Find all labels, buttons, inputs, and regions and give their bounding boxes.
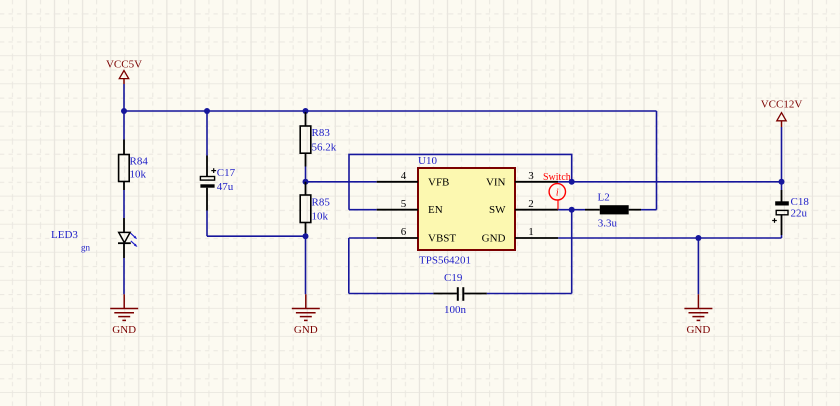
- ground GND middle: [292, 294, 320, 336]
- svg-text:1: 1: [528, 226, 534, 238]
- svg-text:100n: 100n: [444, 304, 467, 316]
- junction SW node: [569, 207, 575, 213]
- wire C18 bottom to GND net: [781, 235, 783, 238]
- wire main VCC5V bus: [124, 110, 657, 112]
- svg-text:VIN: VIN: [486, 176, 506, 188]
- svg-text:3.3u: 3.3u: [598, 218, 618, 230]
- svg-text:L2: L2: [598, 192, 610, 204]
- svg-text:SW: SW: [489, 204, 506, 216]
- svg-text:GND: GND: [294, 324, 318, 336]
- wire C17 to R85 junction: [207, 235, 306, 237]
- svg-text:U10: U10: [418, 155, 437, 167]
- wire junction down to GND: [697, 238, 699, 294]
- svg-text:6: 6: [401, 226, 407, 238]
- resistor R83: [300, 112, 337, 167]
- svg-text:gn: gn: [81, 243, 91, 253]
- wire EN to pin 5: [349, 209, 377, 211]
- wire riser L2 to VCC5V bus: [656, 111, 658, 210]
- inductor L2: [585, 192, 641, 230]
- svg-text:GND: GND: [686, 324, 710, 336]
- wire junction to C18: [781, 182, 783, 190]
- svg-text:R85: R85: [312, 197, 331, 209]
- junction at R83 top: [303, 108, 309, 114]
- wire C19 left to VBST riser: [349, 293, 434, 295]
- wire LED3 to GND: [123, 258, 125, 294]
- wire junction to middle GND: [305, 236, 307, 294]
- wire SW to L2: [558, 209, 585, 211]
- wire VIN to VCC12V: [558, 181, 781, 183]
- ground GND left: [110, 294, 138, 336]
- wire bus to C17: [206, 111, 208, 156]
- svg-text:EN: EN: [428, 204, 443, 216]
- pin 1 GND: [515, 226, 558, 238]
- svg-text:5: 5: [401, 198, 407, 210]
- svg-text:C17: C17: [217, 167, 236, 179]
- pin 6 VBST: [377, 226, 418, 238]
- wire VBST riser: [348, 238, 350, 294]
- wire SW down to C19: [571, 210, 573, 294]
- svg-text:VFB: VFB: [428, 176, 449, 188]
- junction C18 top node: [779, 179, 785, 185]
- svg-text:47u: 47u: [217, 181, 234, 193]
- power port VCC12V: [761, 99, 803, 128]
- wire C19 right lead to SW: [487, 293, 572, 295]
- pin 5 EN: [377, 198, 418, 210]
- svg-text:VCC5V: VCC5V: [106, 59, 142, 71]
- svg-text:4: 4: [401, 170, 407, 182]
- junction GND divider node: [303, 233, 309, 239]
- probe marker i on SW: [549, 184, 565, 210]
- svg-text:VBST: VBST: [428, 233, 456, 245]
- junction right GND node: [695, 235, 701, 241]
- svg-text:R83: R83: [312, 127, 331, 139]
- pin 2 SW: [515, 198, 558, 210]
- svg-text:R84: R84: [130, 156, 149, 168]
- LED LED3: [51, 218, 137, 258]
- op-amp U10 TPS564201: [418, 155, 515, 266]
- wire bus to R84: [123, 111, 125, 140]
- power port VCC5V: [106, 59, 142, 85]
- pin 3 VIN: [515, 170, 558, 182]
- svg-text:VCC12V: VCC12V: [761, 99, 803, 111]
- wire VCC12V to VIN net: [781, 127, 783, 182]
- svg-text:56.2k: 56.2k: [312, 142, 337, 154]
- wire L2 to bus riser: [641, 209, 657, 211]
- svg-text:TPS564201: TPS564201: [419, 255, 471, 267]
- capacitor C19: [433, 272, 486, 316]
- junction VFB node: [303, 179, 309, 185]
- wire C17 down: [206, 211, 208, 237]
- svg-text:GND: GND: [112, 324, 136, 336]
- junction at R84 top: [121, 108, 127, 114]
- svg-text:i: i: [556, 188, 559, 199]
- wire GND pin to right ground: [558, 237, 698, 239]
- svg-text:GND: GND: [482, 233, 506, 245]
- junction VIN node: [569, 179, 575, 185]
- resistor R85: [300, 182, 330, 234]
- svg-text:3: 3: [528, 170, 534, 182]
- wire VBST to pin 6: [349, 237, 377, 239]
- svg-text:10k: 10k: [312, 211, 329, 223]
- svg-text:C18: C18: [791, 196, 810, 208]
- wire R83 to VFB junction: [305, 167, 307, 182]
- wire R85 bottom to junction: [305, 234, 307, 237]
- junction at C17 top: [204, 108, 210, 114]
- ground GND right: [684, 294, 712, 336]
- wire VFB junction to pin 4: [306, 181, 377, 183]
- capacitor C17: [200, 156, 235, 211]
- svg-text:10k: 10k: [130, 168, 147, 180]
- wire junction to C18 bottom: [698, 237, 781, 239]
- svg-text:2: 2: [528, 198, 534, 210]
- svg-text:22u: 22u: [791, 208, 808, 220]
- pin 4 VFB: [377, 170, 418, 182]
- svg-text:LED3: LED3: [51, 229, 78, 241]
- capacitor C18: [772, 190, 809, 235]
- wire R84 to LED3: [123, 190, 125, 218]
- resistor R84: [119, 140, 149, 191]
- wire EN riser: [349, 154, 572, 209]
- svg-text:C19: C19: [444, 272, 463, 284]
- wire VCC5V stem to bus: [123, 84, 125, 111]
